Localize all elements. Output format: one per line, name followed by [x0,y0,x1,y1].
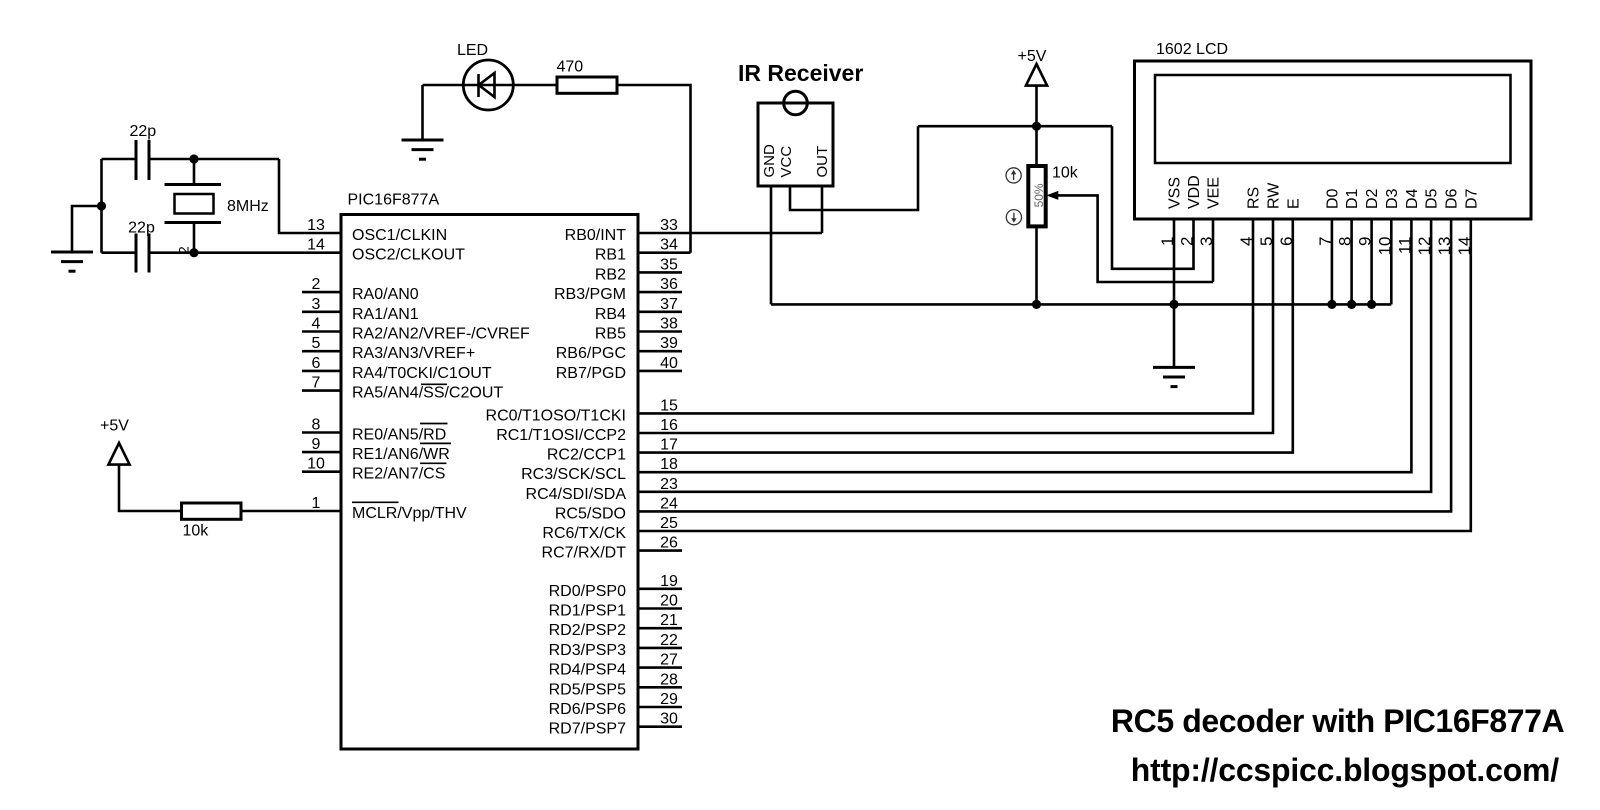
svg-text:D3: D3 [1384,188,1401,209]
svg-text:RC4/SDI/SDA: RC4/SDI/SDA [526,486,627,503]
PIC16F877A U1 body [341,215,638,750]
svg-text:21: 21 [660,612,678,629]
wire D2 to ground rail [1370,219,1373,304]
wire RB1 pin 34 [638,251,691,254]
node crystal left junction [97,201,106,210]
svg-text:19: 19 [660,573,678,590]
overline WR (RE1) [420,442,451,444]
svg-text:RA4/T0CKI/C1OUT: RA4/T0CKI/C1OUT [352,365,492,382]
svg-text:RB2: RB2 [595,266,626,283]
node pot-ground rail junction [1032,300,1041,309]
indicator down arrow circle [1006,210,1021,225]
IR receiver lens circle [784,91,808,115]
pin 4 stub (U1 left) [302,330,341,333]
node D2 junction [1367,300,1376,309]
svg-text:3: 3 [312,296,321,313]
wire RB0 pin 33 [638,232,822,235]
wire D1 to ground rail [1350,219,1353,304]
potentiometer RV1 body [1028,166,1045,226]
pin 30 stub (U1 right) [638,725,682,728]
capacitor C1 22p [135,140,138,180]
wire R1 to RB1 pin 34 [617,85,691,253]
wire C1 to OSC1 corner [151,158,280,161]
svg-text:D0: D0 [1324,188,1341,209]
overline RD (RE0) [420,423,448,425]
svg-text:RA2/AN2/VREF-/CVREF: RA2/AN2/VREF-/CVREF [352,326,530,343]
wire pin 17 to LCD [638,219,1293,453]
overline MCLR [352,501,399,503]
LCD module LCD1 body [1135,61,1532,219]
svg-text:+5V: +5V [1018,48,1047,65]
LED D1 [479,73,495,97]
svg-text:VDD: VDD [1186,175,1203,209]
wire VSS to ground rail [1173,219,1176,367]
svg-text:10k: 10k [183,523,210,540]
svg-text:RE2/AN7/CS: RE2/AN7/CS [352,466,445,483]
ground rail horizontal [771,303,1391,306]
svg-text:3: 3 [1197,237,1216,246]
pin 9 stub (U1 left) [302,451,341,454]
svg-text:RC0/T1OSO/T1CKI: RC0/T1OSO/T1CKI [486,407,626,424]
svg-text:RB6/PGC: RB6/PGC [556,345,626,362]
svg-text:2: 2 [1178,237,1197,246]
pin 10 stub (U1 left) [302,470,341,473]
svg-text:50%: 50% [1032,183,1046,207]
wire +5V to R2 [119,465,182,511]
pin 40 stub (U1 right) [638,370,682,373]
svg-text:34: 34 [660,237,678,254]
svg-text:RD1/PSP1: RD1/PSP1 [549,603,626,620]
resistor R1 470 [557,77,617,93]
wire +5V rail to VDD [1112,126,1194,269]
wire pin 23 to LCD [638,219,1431,492]
pin 27 stub (U1 right) [638,666,682,669]
svg-text:RB1: RB1 [595,247,626,264]
svg-text:29: 29 [660,691,678,708]
wire ground arm from node [72,206,102,252]
svg-text:RD5/PSP5: RD5/PSP5 [549,681,626,698]
svg-text:18: 18 [660,456,678,473]
pin 38 stub (U1 right) [638,330,682,333]
svg-text:LED: LED [457,42,488,59]
svg-text:VCC: VCC [778,146,795,178]
svg-text:RD4/PSP4: RD4/PSP4 [549,662,626,679]
svg-text:IR Receiver: IR Receiver [738,60,863,86]
svg-text:30: 30 [660,711,678,728]
svg-text:1: 1 [312,495,321,512]
pin 20 stub (U1 right) [638,607,682,610]
svg-text:14: 14 [307,237,325,254]
pin 29 stub (U1 right) [638,706,682,709]
svg-text:7: 7 [312,375,321,392]
wire pin 18 to LCD [638,219,1411,472]
svg-text:23: 23 [660,476,678,493]
svg-text:33: 33 [660,217,678,234]
svg-text:D7: D7 [1463,188,1480,209]
svg-text:RB4: RB4 [595,306,626,323]
svg-text:OUT: OUT [814,146,831,178]
svg-text:RB3/PGM: RB3/PGM [554,286,626,303]
svg-text:6: 6 [312,355,321,372]
svg-text:PIC16F877A: PIC16F877A [348,192,440,209]
svg-text:RA5/AN4/SS/C2OUT: RA5/AN4/SS/C2OUT [352,385,503,402]
pin 35 stub (U1 right) [638,271,682,274]
pin 7 stub (U1 left) [302,389,341,392]
svg-text:2: 2 [312,276,321,293]
pin 39 stub (U1 right) [638,350,682,353]
svg-text:MCLR/Vpp/THV: MCLR/Vpp/THV [352,505,467,522]
node VSS-ground rail junction [1169,300,1178,309]
wire crystal top stub [193,159,196,185]
svg-text:13: 13 [307,217,325,234]
svg-text:D4: D4 [1404,188,1421,209]
svg-text:10: 10 [307,456,325,473]
wire LED cathode to ground [421,85,424,140]
svg-text:RS: RS [1246,187,1263,209]
svg-text:15: 15 [660,397,678,414]
wire OSC2 pin 14 [151,251,342,254]
svg-text:RC3/SCK/SCL: RC3/SCK/SCL [521,466,626,483]
svg-text:22: 22 [660,632,678,649]
svg-text:RE0/AN5/RD: RE0/AN5/RD [352,427,446,444]
svg-text:OSC2/CLKOUT: OSC2/CLKOUT [352,247,465,264]
svg-text:OSC1/CLKIN: OSC1/CLKIN [352,227,447,244]
svg-text:D5: D5 [1424,188,1441,209]
svg-text:22p: 22p [128,220,155,237]
pin 26 stub (U1 right) [638,549,682,552]
svg-text:VSS: VSS [1167,177,1184,209]
wire pot wiper to VEE [1053,195,1213,282]
svg-text:27: 27 [660,652,678,669]
svg-text:D1: D1 [1344,188,1361,209]
resistor R2 10k [182,503,242,519]
svg-text:RD3/PSP3: RD3/PSP3 [549,642,626,659]
wire IR GND to ground rail [770,186,773,304]
wire pin 16 to LCD [638,219,1273,433]
svg-text:8: 8 [312,417,321,434]
svg-text:38: 38 [660,316,678,333]
crystal X1 8MHz [165,183,222,186]
ground (crystal circuit) [51,251,93,254]
svg-text:22p: 22p [129,123,156,140]
wire D3 to ground rail [1390,219,1393,304]
overline SS (RA5) [421,383,447,385]
svg-text:RW: RW [1266,182,1283,209]
svg-text:25: 25 [660,515,678,532]
indicator up arrow circle [1006,168,1021,183]
pin 19 stub (U1 right) [638,587,682,590]
wire R2 to MCLR pin 1 [241,510,341,513]
svg-text:10k: 10k [1052,165,1079,182]
svg-text:RC7/RX/DT: RC7/RX/DT [542,545,627,562]
svg-text:37: 37 [660,296,678,313]
ground (LED) [402,139,444,142]
ground (LCD VSS) [1153,366,1195,369]
node +5V rail junction [1032,122,1041,131]
svg-text:RB0/INT: RB0/INT [565,227,627,244]
wire bottom net to C2 [102,251,135,254]
IR receiver U2 body [758,103,833,186]
svg-text:4: 4 [312,316,321,333]
pin 8 stub (U1 left) [302,431,341,434]
svg-text:1602 LCD: 1602 LCD [1156,41,1228,58]
pin 6 stub (U1 left) [302,370,341,373]
svg-text:RD2/PSP2: RD2/PSP2 [549,622,626,639]
svg-text:26: 26 [660,535,678,552]
svg-text:RB5: RB5 [595,326,626,343]
svg-text:VEE: VEE [1206,177,1223,209]
wire OSC1 pin 13 [279,159,341,233]
svg-text:RC5 decoder with PIC16F877A: RC5 decoder with PIC16F877A [1111,703,1565,739]
svg-text:RA0/AN0: RA0/AN0 [352,286,419,303]
LCD screen area [1155,75,1511,163]
wire VEE vertical [1212,219,1215,282]
svg-text:D2: D2 [1364,188,1381,209]
wire IR VCC to +5V rail [790,126,918,210]
svg-text:RC2/CCP1: RC2/CCP1 [547,447,626,464]
svg-text:5: 5 [312,335,321,352]
svg-text:RC6/TX/CK: RC6/TX/CK [542,525,626,542]
svg-text:RD7/PSP7: RD7/PSP7 [549,721,626,738]
svg-text:9: 9 [312,436,321,453]
pin 3 stub (U1 left) [302,310,341,313]
node D0 junction [1327,300,1336,309]
node D1 junction [1347,300,1356,309]
svg-text:GND: GND [761,144,778,178]
svg-text:RA1/AN1: RA1/AN1 [352,306,419,323]
pin 22 stub (U1 right) [638,647,682,650]
svg-text:20: 20 [660,593,678,610]
wire crystal left vertical [100,159,103,253]
wire IR OUT to RB0 [821,186,824,233]
wire pot bottom to ground rail [1035,226,1038,304]
wire through LED [423,84,558,87]
svg-text:http://ccspicc.blogspot.com/: http://ccspicc.blogspot.com/ [1131,752,1560,788]
wire crystal bottom stub [193,223,196,253]
pin 2 stub (U1 left) [302,291,341,294]
svg-text:RA3/AN3/VREF+: RA3/AN3/VREF+ [352,345,475,362]
wire +5V arrow to pot [1035,86,1038,166]
svg-text:36: 36 [660,276,678,293]
svg-text:RC1/T1OSI/CCP2: RC1/T1OSI/CCP2 [496,427,626,444]
svg-text:+5V: +5V [100,418,129,435]
pin 28 stub (U1 right) [638,686,682,689]
pin 5 stub (U1 left) [302,350,341,353]
svg-text:35: 35 [660,256,678,273]
pot wiper arrowhead [1046,191,1058,200]
wire +5V rail horizontal [918,125,1112,128]
node crystal top junction [189,154,198,163]
svg-text:RC5/SDO: RC5/SDO [555,505,626,522]
wire pin 25 to LCD [638,219,1471,531]
svg-text:RB7/PGD: RB7/PGD [556,365,626,382]
svg-text:RD0/PSP0: RD0/PSP0 [549,583,626,600]
svg-text:24: 24 [660,495,678,512]
capacitor C2 22p [135,234,138,273]
pin 21 stub (U1 right) [638,627,682,630]
wire top net to C1 [102,158,135,161]
node crystal bottom junction [189,248,198,257]
wire pin 15 to LCD [638,219,1253,413]
overline CS (RE2) [420,462,447,464]
svg-text:8MHz: 8MHz [227,198,269,215]
svg-text:40: 40 [660,355,678,372]
svg-text:470: 470 [557,59,584,76]
svg-text:E: E [1285,198,1302,209]
wire pin 24 to LCD [638,219,1451,511]
svg-text:RE1/AN6/WR: RE1/AN6/WR [352,446,450,463]
svg-text:17: 17 [660,437,678,454]
svg-text:D6: D6 [1444,188,1461,209]
svg-text:16: 16 [660,417,678,434]
svg-text:RD6/PSP6: RD6/PSP6 [549,701,626,718]
pin 36 stub (U1 right) [638,291,682,294]
svg-text:28: 28 [660,671,678,688]
svg-text:39: 39 [660,335,678,352]
wire D0 to ground rail [1331,219,1334,304]
pin 37 stub (U1 right) [638,310,682,313]
